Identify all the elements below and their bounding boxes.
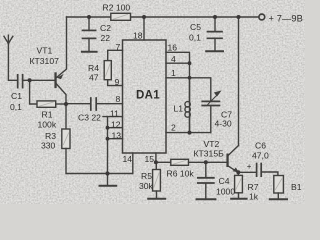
svg-text:330: 330 (41, 141, 56, 151)
svg-text:30k: 30k (139, 181, 154, 191)
svg-text:8: 8 (116, 94, 121, 104)
svg-text:R6 10k: R6 10k (167, 168, 195, 178)
svg-text:1: 1 (171, 68, 176, 78)
svg-text:R5: R5 (141, 171, 152, 181)
svg-text:C6: C6 (255, 141, 266, 151)
svg-text:4-30: 4-30 (215, 118, 232, 128)
svg-text:C5: C5 (190, 22, 201, 32)
svg-text:4: 4 (171, 54, 176, 64)
svg-text:L1: L1 (174, 104, 184, 114)
svg-text:+: + (247, 162, 252, 171)
svg-text:R1: R1 (42, 110, 53, 120)
svg-text:0,1: 0,1 (10, 102, 22, 112)
svg-text:2: 2 (171, 123, 176, 133)
svg-text:C3 22: C3 22 (78, 112, 101, 122)
svg-text:КТ315Б: КТ315Б (194, 148, 225, 158)
svg-text:1k: 1k (249, 191, 259, 201)
svg-text:11: 11 (110, 108, 119, 118)
svg-text:1000: 1000 (216, 187, 235, 197)
svg-text:C4: C4 (219, 176, 230, 186)
svg-text:13: 13 (112, 130, 122, 140)
svg-text:КТ3107: КТ3107 (30, 56, 60, 66)
svg-text:+ 7—9В: + 7—9В (269, 13, 303, 23)
svg-text:R3: R3 (45, 131, 56, 141)
svg-text:16: 16 (168, 42, 178, 52)
svg-text:0,1: 0,1 (189, 33, 201, 43)
svg-text:18: 18 (133, 31, 143, 41)
svg-text:100k: 100k (38, 120, 57, 130)
svg-text:14: 14 (123, 154, 133, 164)
svg-text:47,0: 47,0 (252, 150, 269, 160)
svg-text:DA1: DA1 (136, 90, 160, 102)
svg-text:7: 7 (116, 42, 121, 52)
svg-text:15: 15 (145, 154, 155, 164)
svg-text:12: 12 (111, 119, 121, 129)
svg-text:22: 22 (101, 33, 111, 43)
svg-text:VT1: VT1 (37, 46, 53, 56)
svg-text:9: 9 (115, 77, 120, 87)
svg-text:R2 100: R2 100 (103, 3, 131, 13)
svg-text:C1: C1 (11, 91, 22, 101)
svg-text:C2: C2 (100, 23, 111, 33)
svg-text:47: 47 (89, 73, 99, 83)
svg-text:B1: B1 (291, 182, 302, 192)
svg-text:R4: R4 (88, 63, 99, 73)
